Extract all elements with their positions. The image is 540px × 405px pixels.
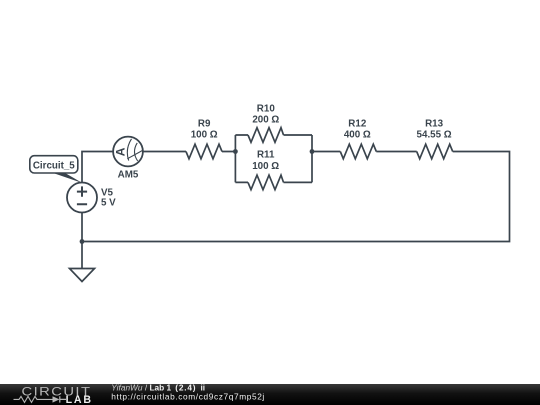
- svg-text:200 Ω: 200 Ω: [252, 114, 279, 125]
- svg-text:AM5: AM5: [118, 170, 139, 181]
- svg-text:100 Ω: 100 Ω: [252, 161, 279, 172]
- svg-text:R11: R11: [257, 149, 275, 160]
- svg-text:R10: R10: [257, 103, 276, 114]
- svg-text:R9: R9: [198, 118, 211, 129]
- svg-text:A: A: [114, 147, 128, 156]
- svg-text:5 V: 5 V: [101, 198, 116, 209]
- svg-text:LAB: LAB: [66, 394, 93, 405]
- svg-text:R12: R12: [348, 119, 367, 130]
- svg-text:54.55 Ω: 54.55 Ω: [417, 129, 452, 140]
- svg-text:http://circuitlab.com/cd9cz7q7: http://circuitlab.com/cd9cz7q7mp52j: [111, 391, 265, 401]
- svg-text:100 Ω: 100 Ω: [191, 130, 218, 141]
- svg-text:R13: R13: [425, 119, 444, 130]
- svg-text:Circuit_5: Circuit_5: [33, 160, 75, 171]
- svg-text:400 Ω: 400 Ω: [344, 129, 371, 140]
